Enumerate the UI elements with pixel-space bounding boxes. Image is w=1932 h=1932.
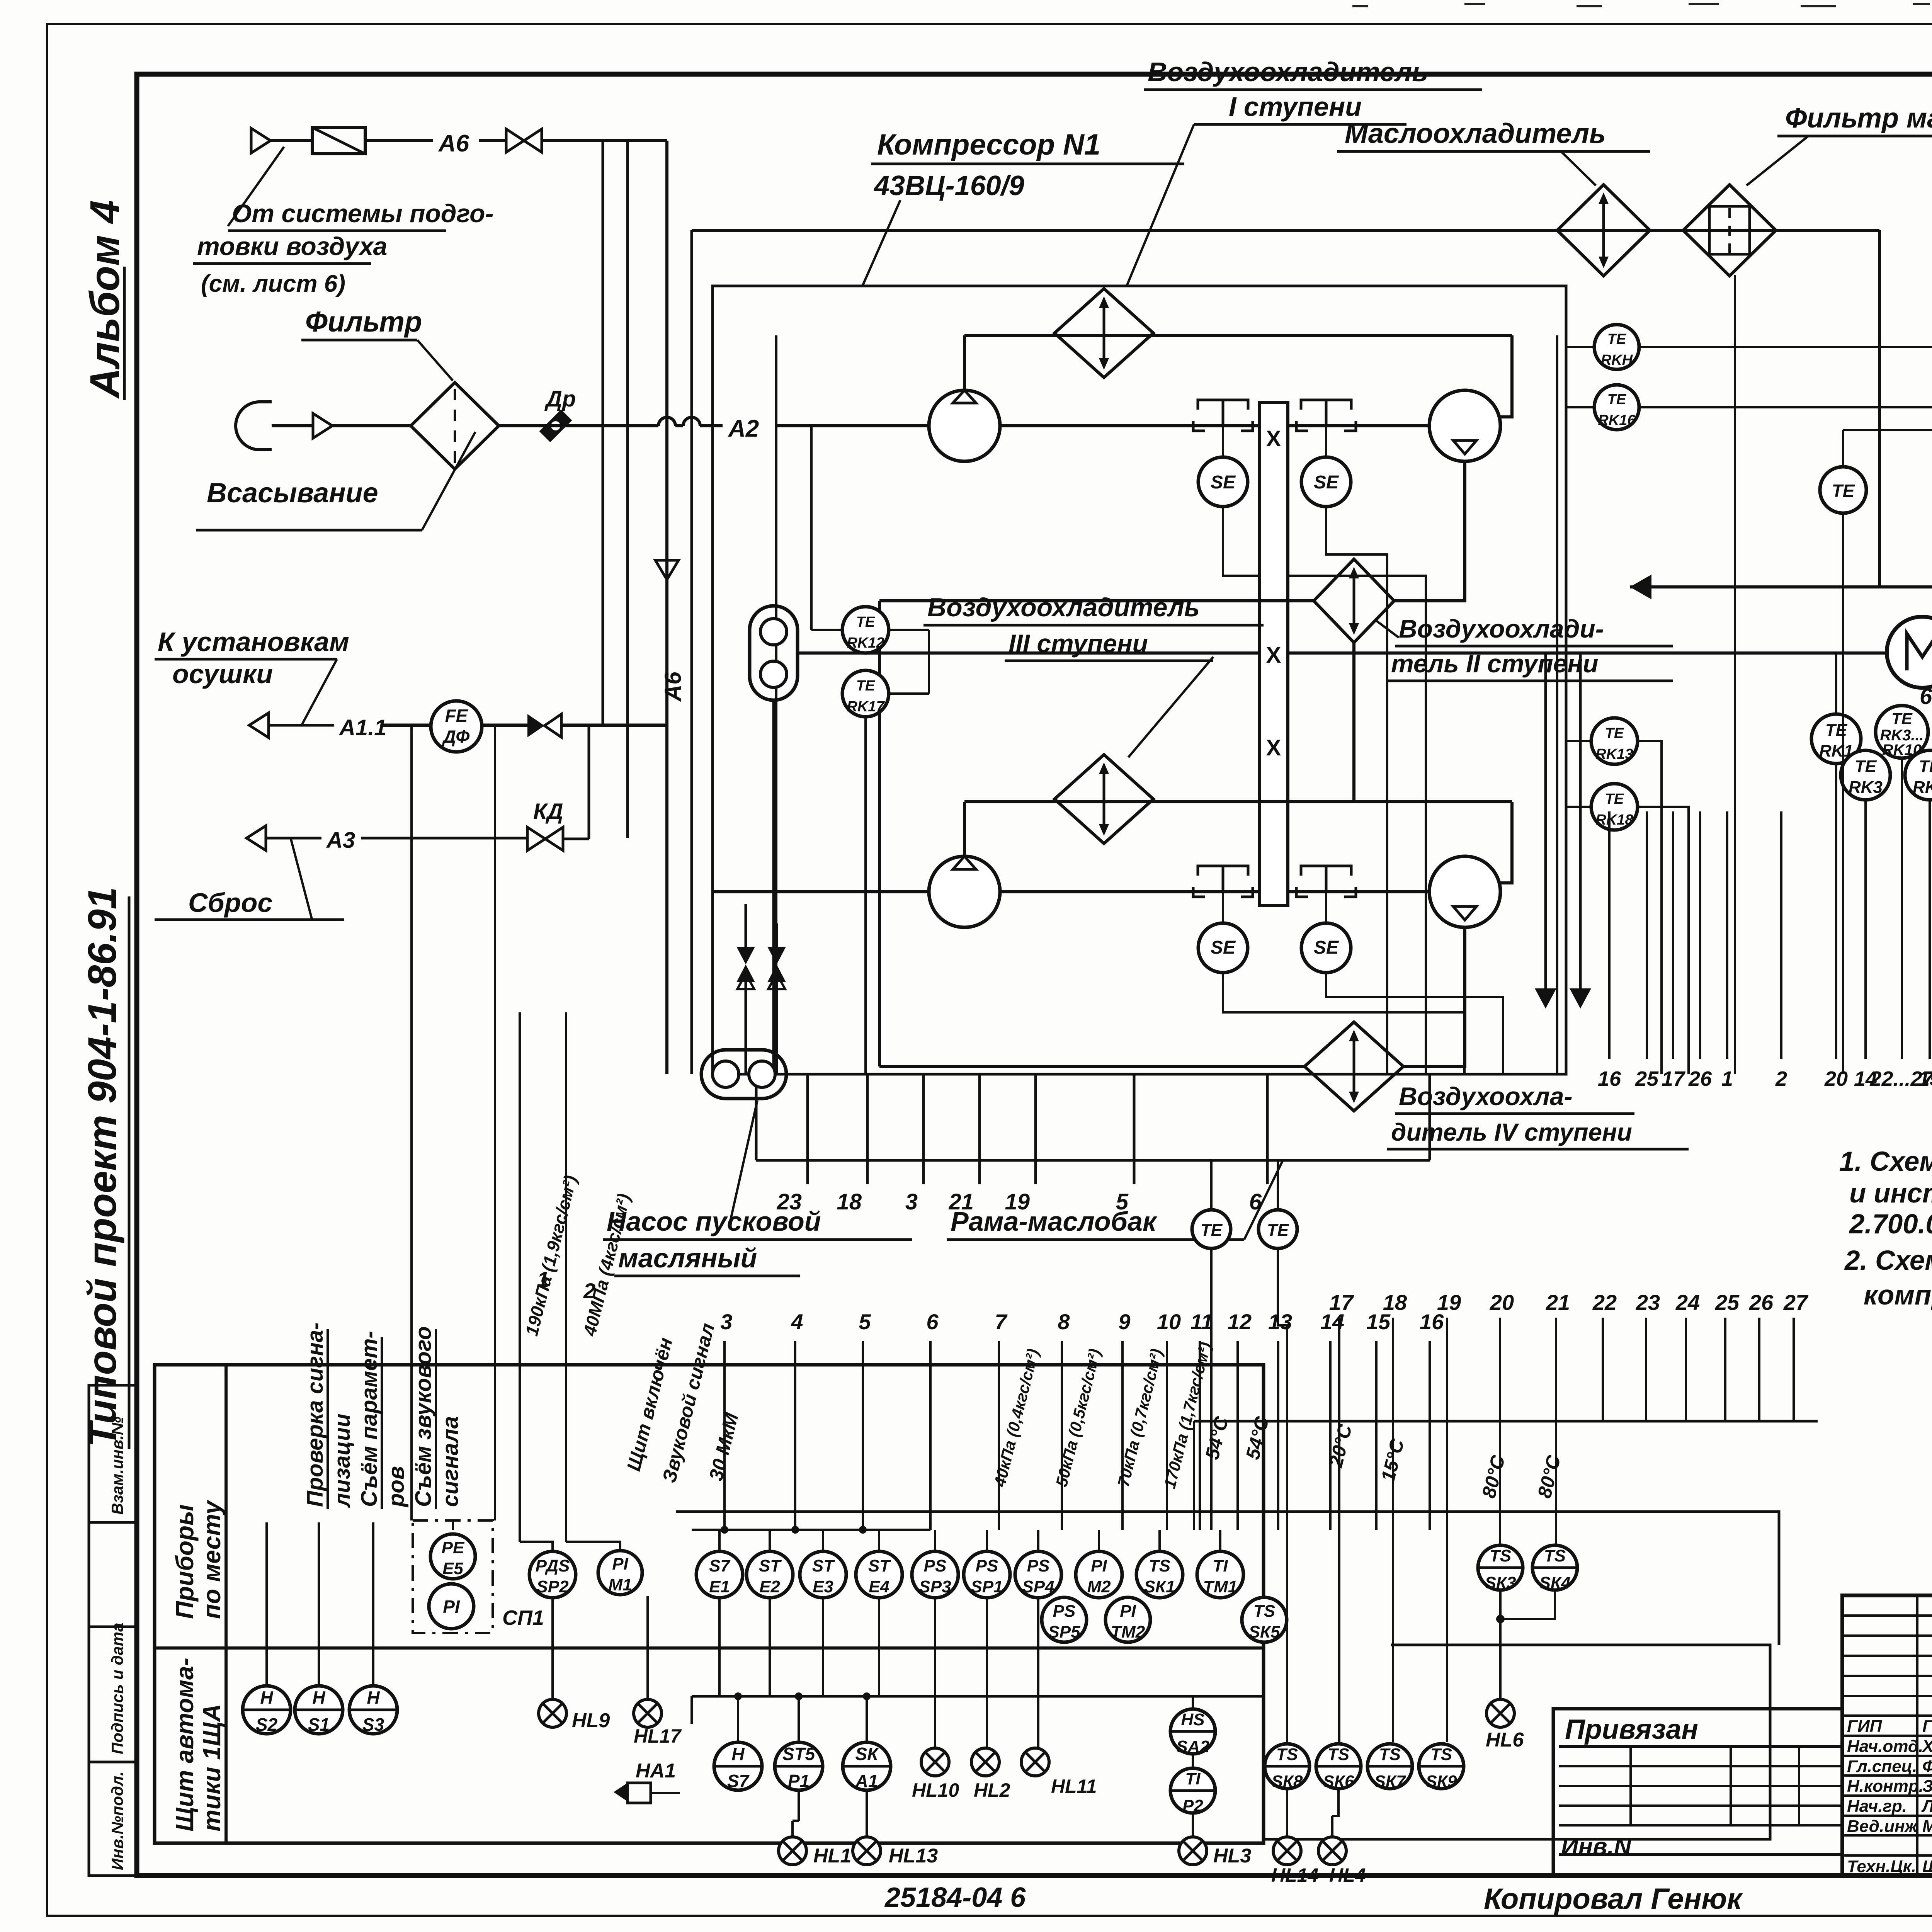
svg-text:17: 17: [1662, 1067, 1686, 1090]
suction bell: [236, 402, 272, 450]
svg-text:HL17: HL17: [634, 1725, 682, 1747]
M line right: [1288, 651, 1888, 655]
svg-text:От системы подго-: От системы подго-: [232, 199, 493, 228]
panel stubs: [737, 1696, 739, 1742]
TE RK12 left wire: [811, 629, 842, 631]
svg-text:HL10: HL10: [912, 1779, 959, 1801]
svg-text:ТI: ТI: [1185, 1769, 1201, 1788]
KD to riser: [563, 838, 589, 840]
svg-text:ТS: ТS: [1544, 1546, 1566, 1565]
svg-text:Съём звукового: Съём звукового: [411, 1326, 436, 1507]
PE feed wire: [410, 725, 413, 1520]
H S1: [295, 1686, 343, 1734]
svg-text:ТМ1: ТМ1: [1203, 1577, 1238, 1596]
svg-text:РI: РI: [1120, 1602, 1136, 1621]
A3 arrow: [247, 826, 266, 850]
oil pipe corner right: [1878, 230, 1881, 587]
svg-text:25184-04 6: 25184-04 6: [884, 1882, 1026, 1913]
svg-text:М1: М1: [608, 1575, 632, 1594]
valve A1.1 half: [527, 714, 544, 737]
svg-text:Любимова: Любимова: [1921, 1797, 1932, 1816]
svg-text:ТЕ: ТЕ: [856, 614, 876, 630]
stage1 right drop: [1500, 335, 1512, 417]
SE3 down: [1223, 973, 1464, 1074]
bus 3912: [676, 1512, 1779, 1645]
svg-text:17: 17: [1329, 1290, 1354, 1315]
svg-text:RKН: RKН: [1601, 352, 1633, 368]
SE2 down wire: [1326, 507, 1387, 1074]
svg-text:ТЕ: ТЕ: [1891, 709, 1913, 728]
svg-text:RK4: RK4: [1913, 778, 1932, 797]
svg-text:Е1: Е1: [709, 1577, 730, 1596]
svg-text:25: 25: [1635, 1067, 1659, 1090]
svg-text:ТS: ТS: [1379, 1745, 1401, 1764]
svg-text:4: 4: [791, 1310, 803, 1334]
TE RK13 wire: [1566, 740, 1591, 742]
svg-text:HL9: HL9: [572, 1709, 610, 1732]
svg-text:SК5: SК5: [1249, 1622, 1280, 1641]
svg-text:РI: РI: [443, 1597, 460, 1617]
svg-text:22: 22: [1592, 1290, 1617, 1315]
A1.1 line3: [561, 724, 667, 727]
svg-text:Воздухоохладитель: Воздухоохладитель: [927, 593, 1200, 622]
svg-text:26: 26: [1688, 1067, 1712, 1090]
HL3 lamp: [1179, 1837, 1207, 1865]
svg-text:Н: Н: [731, 1744, 745, 1764]
svg-text:Копировал Генюк: Копировал Генюк: [1484, 1883, 1743, 1915]
svg-text:лизации: лизации: [330, 1413, 355, 1508]
svg-text:Маслоохладитель: Маслоохладитель: [1345, 118, 1606, 149]
HL6 lamp: [1486, 1699, 1514, 1727]
svg-text:HL1: HL1: [813, 1845, 851, 1867]
svg-text:Е4: Е4: [869, 1577, 889, 1596]
pump2 down: [1394, 461, 1465, 601]
svg-text:2: 2: [1775, 1067, 1787, 1090]
svg-text:I ступени: I ступени: [1229, 92, 1362, 122]
svg-text:Воздухоохла-: Воздухоохла-: [1399, 1082, 1573, 1111]
SE circle 1: [1198, 457, 1248, 507]
svg-text:11: 11: [1190, 1310, 1213, 1334]
svg-text:6: 6: [926, 1310, 939, 1334]
HS SA2: [1170, 1709, 1215, 1754]
TE RK12: [842, 607, 889, 653]
PI feed wire: [494, 725, 496, 1520]
svg-text:S7: S7: [709, 1556, 731, 1575]
svg-text:24: 24: [1675, 1290, 1700, 1315]
TE RK18 wire: [1566, 806, 1591, 808]
H S2: [243, 1686, 291, 1734]
svg-text:10: 10: [1157, 1310, 1181, 1334]
svg-text:Инв.N: Инв.N: [1561, 1833, 1632, 1860]
field top bus: [692, 1529, 930, 1531]
TE RK16 wires: [1566, 406, 1594, 408]
svg-text:SК4: SК4: [1539, 1573, 1571, 1592]
M line mid: [929, 651, 1259, 655]
numbered stubs under box: [806, 1074, 809, 1184]
svg-text:SЕ: SЕ: [1211, 472, 1236, 493]
svg-text:Инв.№подл.: Инв.№подл.: [108, 1771, 126, 1870]
crank brackets lower right: [1301, 866, 1351, 876]
HS wire: [1192, 1696, 1194, 1708]
svg-text:III ступени: III ступени: [1009, 629, 1148, 658]
panel row circles: [714, 1742, 762, 1790]
TE RK12 wire: [889, 629, 929, 631]
SE1 down wire: [1223, 507, 1426, 1074]
stage frame left vertical: [775, 335, 777, 1074]
return line: [1630, 585, 1932, 588]
svg-text:X: X: [1266, 426, 1281, 451]
svg-text:Н: Н: [260, 1687, 273, 1708]
svg-text:HL11: HL11: [1051, 1776, 1097, 1797]
TE RK18: [1591, 784, 1638, 830]
svg-text:23: 23: [1636, 1290, 1660, 1315]
svg-text:SЕ: SЕ: [1314, 472, 1339, 493]
svg-text:SК7: SК7: [1374, 1772, 1406, 1791]
TS34 wires: [1500, 1530, 1501, 1545]
svg-text:25: 25: [1715, 1290, 1740, 1315]
TE RK3-RK10: [1876, 706, 1928, 758]
svg-text:Е3: Е3: [813, 1577, 833, 1596]
svg-text:Н: Н: [312, 1687, 325, 1708]
oil filter drop: [1734, 275, 1736, 1074]
svg-text:7: 7: [995, 1310, 1008, 1334]
svg-text:SТ: SТ: [759, 1556, 782, 1575]
svg-text:и инструкции по эксплуатаци: и инструкции по эксплуатации 0.002.769ТП…: [1849, 1178, 1932, 1209]
left stamp column box: [89, 1385, 137, 1876]
svg-text:HL2: HL2: [974, 1779, 1010, 1801]
stage2 right drop: [1500, 802, 1512, 883]
svg-text:12: 12: [1228, 1310, 1252, 1334]
crank brackets upper right: [1301, 400, 1351, 410]
svg-text:М2: М2: [1087, 1577, 1111, 1596]
wire 1: [519, 1012, 521, 1542]
svg-text:5: 5: [1116, 1189, 1129, 1214]
rama bus: [756, 1159, 1430, 1162]
HL1 lamp: [779, 1837, 806, 1865]
collector bus: [692, 1695, 1264, 1698]
svg-text:ТS: ТS: [1430, 1745, 1452, 1764]
horizontal oil pump: [701, 1050, 786, 1099]
svg-text:РS: РS: [1053, 1602, 1076, 1621]
cooler I diamond: [1054, 289, 1153, 378]
right wires bend: [1639, 346, 1932, 348]
stamp dividers: [89, 1521, 137, 1524]
svg-text:HL14: HL14: [1271, 1864, 1318, 1886]
svg-text:SE: SE: [1211, 937, 1236, 958]
svg-text:Р1: Р1: [788, 1771, 810, 1791]
pipe A2 mid: [675, 424, 683, 427]
check valve stems: [745, 982, 747, 1074]
svg-text:Нач.гр.: Нач.гр.: [1847, 1797, 1907, 1816]
stage2 top pipe: [964, 800, 1512, 803]
svg-text:Р2: Р2: [1182, 1796, 1203, 1815]
cooler II diamond: [1314, 559, 1394, 643]
svg-text:RK12: RK12: [847, 635, 884, 651]
svg-text:15: 15: [1918, 1067, 1932, 1090]
TE RK3b: [1841, 750, 1890, 800]
A1.1 line2: [482, 724, 527, 727]
svg-text:ТМ2: ТМ2: [1111, 1622, 1145, 1641]
svg-text:Подпись и дата: Подпись и дата: [108, 1623, 126, 1754]
svg-text:20: 20: [1490, 1290, 1514, 1315]
pipe A6 to label: [365, 139, 433, 142]
svg-text:RK3: RK3: [1849, 778, 1883, 797]
svg-text:1: 1: [1721, 1067, 1733, 1090]
svg-text:ТЕ: ТЕ: [1855, 757, 1877, 776]
SE circle 4: [1301, 923, 1351, 973]
svg-text:2.700.095СГ Казанского компр: 2.700.095СГ Казанского компрессорного за…: [1849, 1209, 1932, 1240]
HL10 lamp: [921, 1748, 949, 1776]
svg-text:РЕ: РЕ: [442, 1538, 465, 1557]
svg-text:HL3: HL3: [1213, 1845, 1251, 1867]
table col divider: [224, 1365, 228, 1843]
svg-text:Альбом 4: Альбом 4: [81, 200, 128, 399]
svg-text:товки воздуха: товки воздуха: [197, 232, 387, 260]
wire 2: [565, 1012, 567, 1542]
suction pipe to filter: [332, 424, 411, 427]
table box: [155, 1365, 1264, 1843]
svg-text:А2: А2: [728, 415, 759, 442]
TE RK17 wire: [889, 692, 929, 695]
svg-text:А1: А1: [855, 1771, 878, 1791]
svg-text:ТЕ: ТЕ: [1607, 391, 1627, 408]
HL4 lamp: [1318, 1837, 1346, 1865]
svg-text:РI: РI: [612, 1554, 628, 1573]
FE DF circle: [431, 701, 482, 752]
svg-text:RK16: RK16: [1598, 412, 1636, 429]
HL11 lamp: [1021, 1748, 1049, 1776]
svg-text:ТI: ТI: [1213, 1556, 1228, 1575]
pump4 down: [1403, 927, 1465, 1066]
SE1 stub: [1222, 426, 1224, 457]
RK1 feed: [1835, 652, 1837, 714]
svg-text:ТЕ: ТЕ: [1919, 757, 1932, 776]
svg-text:21: 21: [1546, 1290, 1570, 1315]
svg-text:ТS: ТS: [1276, 1745, 1298, 1764]
TE RKH: [1594, 325, 1639, 369]
svg-text:SТ5: SТ5: [782, 1744, 816, 1764]
svg-text:Е2: Е2: [759, 1577, 780, 1596]
HL9 lamp: [539, 1699, 566, 1727]
svg-text:А6: А6: [438, 130, 469, 157]
svg-text:SК1: SК1: [1144, 1577, 1175, 1596]
svg-text:К установкам: К установкам: [158, 627, 349, 657]
svg-text:S3: S3: [362, 1714, 384, 1735]
svg-text:Щит автома-: Щит автома-: [171, 1658, 199, 1832]
svg-text:6шт: 6шт: [1920, 684, 1932, 709]
TS SK8: [1265, 1744, 1310, 1789]
svg-text:Привязан: Привязан: [1565, 1714, 1698, 1745]
TI P2: [1170, 1768, 1215, 1813]
stage2 pump4: [1429, 856, 1500, 927]
svg-text:НА1: НА1: [636, 1760, 676, 1782]
svg-text:HL4: HL4: [1329, 1864, 1366, 1886]
svg-text:Григорьян: Григорьян: [1922, 1717, 1932, 1736]
field row stubs: [718, 1530, 721, 1551]
svg-text:SР1: SР1: [971, 1577, 1003, 1596]
svg-text:Е5: Е5: [442, 1559, 463, 1578]
cooler III diamond: [1054, 755, 1153, 844]
svg-text:SE: SE: [1314, 937, 1339, 958]
wire v1560: [602, 141, 604, 725]
TE RK1: [1811, 714, 1861, 764]
svg-text:SК3: SК3: [1485, 1573, 1516, 1592]
svg-text:Фукс: Фукс: [1922, 1757, 1932, 1776]
TE standalone 2: [1820, 467, 1866, 513]
svg-text:SК8: SК8: [1272, 1772, 1303, 1791]
oil filter diamond: [1683, 185, 1776, 276]
svg-text:ТS: ТS: [1253, 1602, 1275, 1621]
stage2 pipe seg: [1000, 890, 1259, 893]
svg-text:HL6: HL6: [1486, 1729, 1524, 1751]
suction arrow: [313, 413, 332, 438]
svg-text:Христофоров: Христофоров: [1921, 1737, 1932, 1756]
svg-text:RK18: RK18: [1595, 812, 1633, 828]
TE RK13: [1591, 718, 1638, 764]
pipe A6 to corner: [542, 139, 667, 142]
lower offset circles: [1042, 1597, 1087, 1642]
svg-text:HL13: HL13: [889, 1845, 938, 1867]
stage1 riser: [963, 335, 966, 390]
svg-text:Н: Н: [367, 1687, 380, 1708]
field row circles: [696, 1551, 743, 1598]
svg-text:осушки: осушки: [172, 659, 273, 689]
pipe A6 vertical: [665, 141, 668, 1074]
crank brackets upper left: [1198, 400, 1248, 410]
maslo cooler diamond: [1557, 185, 1650, 276]
table row divider: [155, 1646, 1264, 1650]
TE RK4: [1905, 750, 1932, 800]
PE E5 group: [413, 1520, 493, 1633]
attachment table: [1553, 1709, 1842, 1876]
TE RK17: [842, 670, 889, 717]
svg-text:16: 16: [1598, 1067, 1621, 1090]
HL2 lamp: [971, 1748, 999, 1776]
svg-text:(см. лист 6): (см. лист 6): [201, 270, 345, 297]
svg-text:ТЕ: ТЕ: [1825, 721, 1848, 740]
svg-text:сигнала: сигнала: [438, 1416, 463, 1507]
H S2 wire: [265, 1522, 268, 1686]
pipe A2 left: [499, 424, 658, 427]
stage1 A2 to pump1: [1000, 424, 1259, 427]
stage2 pump3: [929, 856, 1000, 927]
svg-text:ТS: ТS: [1149, 1556, 1170, 1575]
svg-text:S1: S1: [308, 1714, 330, 1735]
svg-text:Всасывание: Всасывание: [207, 478, 378, 509]
cooler IV pipe left: [879, 1065, 1304, 1068]
svg-text:2. Схема выполнена для комп: 2. Схема выполнена для компрессорного аг…: [1844, 1245, 1932, 1276]
SE4 stub: [1325, 892, 1327, 923]
stage2 riser: [963, 802, 966, 856]
svg-text:9: 9: [1118, 1310, 1130, 1334]
inline device on A6: [312, 128, 365, 154]
filter diamond: [411, 383, 499, 469]
right numbered drops: [1608, 811, 1611, 1059]
TE pair near rama: [1192, 1210, 1231, 1248]
svg-text:ров: ров: [384, 1466, 409, 1508]
E circles bottom stubs: [718, 1598, 721, 1696]
svg-text:А1.1: А1.1: [338, 715, 387, 740]
pipe A6 valve segment: [479, 139, 506, 142]
svg-text:SА2: SА2: [1176, 1737, 1209, 1756]
valve on A6: [506, 129, 542, 152]
svg-text:SР5: SР5: [1048, 1622, 1080, 1641]
svg-text:ДФ: ДФ: [442, 726, 470, 747]
check valves pair: [736, 947, 755, 982]
svg-text:26: 26: [1749, 1290, 1774, 1315]
TE RKH wires: [1566, 346, 1594, 348]
svg-text:масляный: масляный: [618, 1243, 757, 1273]
cooler IV diamond: [1304, 1022, 1403, 1111]
svg-text:SР4: SР4: [1022, 1577, 1054, 1596]
shaft: [1259, 403, 1288, 905]
TS SK4: [1532, 1545, 1577, 1590]
hop A2 over A6v: [658, 417, 675, 426]
svg-text:Гл.спец.: Гл.спец.: [1847, 1757, 1917, 1776]
compressor box: [713, 286, 1566, 1074]
HL14 lamp: [1273, 1837, 1301, 1865]
M line left: [798, 651, 929, 655]
svg-text:X: X: [1266, 643, 1281, 668]
fill arrows pair: [1535, 988, 1591, 1009]
svg-text:ТS: ТS: [1328, 1745, 1349, 1764]
TE RK17 drop: [864, 717, 867, 1074]
svg-text:18: 18: [1383, 1290, 1407, 1315]
throttle device: [539, 410, 572, 442]
svg-text:ТЕ: ТЕ: [1607, 331, 1627, 347]
svg-text:Типовой проект 904-1-86.91: Типовой проект 904-1-86.91: [80, 887, 125, 1447]
SE2 stub: [1325, 426, 1327, 457]
svg-text:FЕ: FЕ: [445, 706, 468, 726]
stage1 pipe to pump2: [1386, 424, 1429, 427]
svg-text:1. Схема выполнена на основ: 1. Схема выполнена на основании техничес…: [1839, 1146, 1932, 1177]
svg-text:по месту: по месту: [198, 1499, 226, 1619]
svg-text:20: 20: [1824, 1067, 1848, 1090]
svg-text:Вед.инж: Вед.инж: [1847, 1817, 1918, 1836]
stage1 pump2: [1429, 390, 1500, 461]
oil pipe y596: [692, 229, 1879, 232]
bus 3678 left drop: [1193, 1421, 1195, 1530]
svg-text:ТЕ: ТЕ: [1605, 725, 1624, 742]
TE pair wires: [1210, 1160, 1213, 1210]
svg-text:Золотарева: Золотарева: [1922, 1777, 1932, 1796]
pipe A2 label seg: [700, 424, 723, 427]
svg-text:13: 13: [1268, 1310, 1292, 1334]
pipe A6 inlet arrow: [251, 128, 270, 153]
twin oval pump vertical: [750, 606, 798, 700]
svg-text:SК9: SК9: [1426, 1772, 1457, 1791]
pipe A6 segment: [270, 139, 312, 142]
TE2 wire down: [1842, 513, 1844, 1074]
TE RK16: [1594, 385, 1639, 430]
svg-text:Менькова: Менькова: [1922, 1817, 1932, 1836]
PDS SP2: [529, 1551, 576, 1598]
svg-text:3: 3: [905, 1189, 918, 1214]
stage1 pump circle: [929, 390, 1000, 461]
return arrow: [1630, 575, 1651, 599]
title block names table: [1842, 1595, 1932, 1876]
bus 3678: [1194, 1420, 1818, 1423]
svg-text:ТЕ: ТЕ: [1267, 1221, 1289, 1240]
svg-text:Нач.отд.: Нач.отд.: [1847, 1737, 1923, 1756]
H S3: [349, 1686, 397, 1734]
svg-text:РS: РS: [1027, 1556, 1050, 1575]
svg-text:РS: РS: [976, 1556, 998, 1575]
svg-text:SК6: SК6: [1323, 1772, 1354, 1791]
svg-text:Н.контр.: Н.контр.: [1847, 1777, 1923, 1796]
oval stem down: [772, 700, 775, 1074]
svg-text:8: 8: [1058, 1310, 1070, 1334]
